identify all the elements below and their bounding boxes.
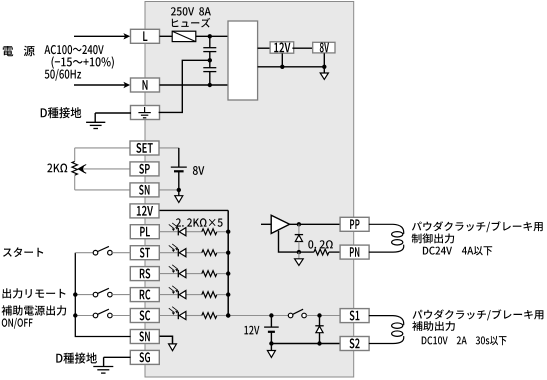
power supply block U1: [228, 21, 258, 100]
label 0.2Ω: [308, 240, 333, 248]
diode D2 flyback: [319, 316, 321, 326]
capacitor C1: [209, 36, 211, 47]
powder clutch controller panel: [145, 2, 354, 378]
wire S2 row: [271, 343, 340, 345]
wire bus to switch ST: [75, 252, 93, 254]
node battery to S2: [269, 341, 273, 345]
node L-cap junction: [208, 34, 212, 38]
switch RC: [93, 292, 98, 297]
label 2.2KΩ x5: [176, 218, 223, 227]
wire feedback: [279, 231, 300, 252]
switch S1 output: [288, 313, 293, 318]
photocoupler LED ST: [177, 249, 179, 256]
wire ST to LED: [160, 252, 178, 254]
terminal RC: [130, 288, 159, 302]
node bus SC: [73, 313, 77, 317]
wire LED to resistor SC: [187, 315, 202, 317]
node 8V rail junction: [322, 65, 326, 69]
terminal PL: [130, 225, 159, 239]
node cap midpoint: [208, 58, 212, 62]
terminal SC: [130, 309, 159, 323]
fuse F1: [172, 31, 196, 41]
resistor 2.2K PL: [202, 229, 217, 235]
label AC100-240V: [44, 45, 103, 54]
wire RC to LED: [160, 294, 178, 296]
wire LED bus vertical: [227, 210, 229, 315]
label 補助出力: [412, 321, 455, 331]
node bus SC again: [226, 313, 230, 317]
wire LED to resistor RC: [187, 294, 202, 296]
node 12V rail junction: [280, 65, 284, 69]
node bus RS: [226, 271, 230, 275]
label 50/60Hz: [45, 69, 81, 81]
wire FG to cap midpoint: [159, 60, 210, 112]
wire junction to resistor: [299, 251, 314, 253]
clutch coil L1: [369, 224, 404, 234]
node bus SC: [226, 313, 230, 317]
label D種接地 top: [41, 107, 82, 118]
label fuse rating 250V 8A: [171, 7, 211, 15]
label DC24V 4A以下: [423, 246, 492, 255]
wire amp to PP: [290, 223, 340, 225]
node diode bottom: [317, 341, 321, 345]
wire SN to battery: [160, 189, 179, 191]
ground D-class bottom: [104, 356, 131, 358]
wire N to bridge: [160, 84, 229, 86]
ground D-class top: [95, 112, 131, 114]
terminal L: [131, 29, 160, 43]
aux coil L2: [369, 316, 404, 326]
node bus PL: [226, 230, 230, 234]
wire bus to switch RC: [75, 294, 93, 296]
wire N input with arrow: [74, 84, 126, 86]
terminal S1: [340, 309, 369, 323]
label 2KΩ: [47, 164, 67, 173]
wire RS to LED: [160, 273, 178, 275]
wire SET to 8V battery: [160, 147, 179, 149]
terminal SP: [130, 162, 159, 176]
label 制御出力: [412, 233, 454, 243]
photocoupler LED SC: [177, 312, 179, 319]
switch SC: [93, 313, 98, 318]
photocoupler LED RS: [177, 270, 179, 277]
wire fuse to bridge: [196, 35, 228, 37]
wire PL to LED: [160, 231, 178, 233]
op-amp driver U2: [271, 215, 289, 233]
wire switch bus: [75, 253, 130, 337]
resistor 2.2K SC: [202, 313, 217, 319]
node PN junction: [297, 250, 301, 254]
wire resistor to bus SC: [217, 315, 228, 317]
wire switch to terminal SC: [112, 315, 130, 317]
wire SN ground arrow: [160, 336, 173, 344]
wire LED to resistor RS: [187, 273, 202, 275]
wire S1 row: [228, 315, 288, 317]
label AC power source 電源: [3, 46, 13, 56]
label 12V battery: [244, 326, 259, 335]
wire LED to resistor PL: [187, 231, 202, 233]
node bus ST: [226, 251, 230, 255]
wire block to 12V: [258, 47, 270, 49]
terminal PN: [340, 245, 369, 259]
label スタート: [3, 247, 43, 257]
resistor 2.2K RS: [202, 271, 217, 277]
wire 12V to 8V: [292, 47, 312, 49]
wire switch to S1: [306, 315, 340, 317]
wire 12V to LED bus: [160, 209, 229, 211]
wire resistor to bus RS: [217, 273, 228, 275]
battery 8V reference: [178, 148, 180, 167]
terminal SET: [130, 141, 159, 155]
wire switch to terminal RC: [112, 294, 130, 296]
wire resistor to bus RC: [217, 294, 228, 296]
node N-cap junction: [208, 83, 212, 87]
resistor 2.2K RC: [202, 292, 217, 298]
terminal PP: [340, 217, 369, 231]
terminal ST: [130, 246, 159, 260]
ground arrow 8V common: [178, 190, 180, 196]
battery 12V aux: [270, 316, 272, 328]
label DC10V 2A 30s以下: [422, 336, 507, 345]
switch ST: [93, 250, 98, 255]
label パウダクラッチ/ブレーキ用 control: [412, 221, 543, 232]
wire 12V box to rail: [281, 53, 283, 66]
node bus RC: [226, 292, 230, 296]
node battery 12V tap: [269, 313, 273, 317]
wire resistor to bus ST: [217, 252, 228, 254]
label (-15 - +10%): [52, 56, 114, 68]
wire bus to switch SC: [75, 315, 93, 317]
terminal 12V: [130, 204, 159, 218]
wire resistor to bus PL: [217, 231, 228, 233]
label ON/OFF: [2, 318, 33, 329]
label 8V: [193, 166, 204, 175]
node PP junction: [297, 222, 301, 226]
label 出力リモート: [3, 288, 66, 298]
terminal SN: [130, 183, 159, 197]
label fuse ヒューズ: [172, 18, 210, 28]
terminal FG ground: [131, 106, 160, 120]
node battery minus: [177, 188, 181, 192]
photocoupler LED RC: [177, 291, 179, 298]
node diode top: [317, 313, 321, 317]
resistor R-sense 0.2: [314, 249, 329, 255]
terminal RS: [130, 267, 159, 281]
node bus RC: [73, 292, 77, 296]
diode D1 flyback: [298, 224, 300, 234]
terminal N: [131, 78, 160, 92]
wire SC to LED: [160, 315, 178, 317]
terminal SG: [130, 350, 159, 364]
ground arrow SN: [169, 344, 177, 351]
wire amp input: [261, 223, 271, 225]
label D種接地 bottom: [56, 353, 97, 364]
wire common rail: [258, 66, 325, 68]
terminal S2: [340, 337, 369, 351]
wire 8V box to rail: [323, 53, 325, 73]
wire LED to resistor ST: [187, 252, 202, 254]
internal supply 12V box: [270, 42, 294, 53]
photocoupler LED PL: [177, 228, 179, 235]
wire L to fuse: [160, 35, 173, 37]
terminal SN lower: [130, 330, 159, 344]
wire SN stub pot: [75, 189, 131, 191]
resistor 2.2K ST: [202, 250, 217, 256]
capacitor C2: [209, 60, 211, 67]
wire SP wiper: [81, 168, 131, 170]
wire resistor to PN: [329, 251, 340, 253]
label 補助電源出力: [2, 305, 67, 315]
internal supply 8V box: [313, 42, 335, 53]
ground arrow 12V common: [270, 344, 272, 351]
ground arrow internal common: [320, 73, 328, 79]
label パウダクラッチ/ブレーキ用 aux: [413, 309, 544, 320]
ground arrow PN common: [298, 252, 300, 259]
wire switch to terminal ST: [112, 252, 130, 254]
wire L input with arrow: [74, 35, 126, 37]
potentiometer VR1 2K: [74, 148, 76, 162]
wire SET stub: [75, 147, 131, 149]
